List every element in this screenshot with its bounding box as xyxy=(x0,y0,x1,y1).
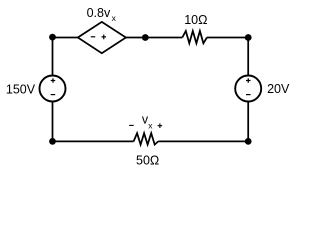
wire: left vertical upper xyxy=(52,38,54,77)
wire: left vertical lower xyxy=(52,101,54,142)
node dot bottom-left xyxy=(49,138,56,145)
label 0.8vx xyxy=(87,6,117,23)
svg-text:50Ω: 50Ω xyxy=(136,154,159,168)
node dot top-right xyxy=(245,34,252,41)
voltage source V2 20V (circle) xyxy=(235,76,261,102)
svg-text:10Ω: 10Ω xyxy=(184,13,207,27)
wire: right vertical upper xyxy=(247,38,249,77)
svg-text:x: x xyxy=(148,121,153,131)
wire: middle node to resistor R1 xyxy=(145,37,182,39)
resistor R1 10ohm zigzag xyxy=(182,31,207,43)
resistor R2 50ohm zigzag xyxy=(134,133,159,144)
svg-text:20V: 20V xyxy=(267,82,290,96)
voltage source V1 150V (circle) xyxy=(40,76,66,102)
wire: top-left horizontal segment xyxy=(53,37,78,39)
wire: resistor R1 to top-right corner xyxy=(207,37,248,39)
node dot bottom-right xyxy=(245,138,252,145)
node dot top-left xyxy=(49,34,56,41)
wire: bottom-right horizontal segment xyxy=(158,140,248,142)
dependent source E1 0.8vx (diamond) xyxy=(78,22,126,53)
wire: right vertical lower xyxy=(247,101,249,142)
svg-text:150V: 150V xyxy=(6,83,36,97)
wire: bottom-left horizontal segment xyxy=(53,140,134,142)
svg-text:x: x xyxy=(112,13,117,23)
svg-text:0.8v: 0.8v xyxy=(87,6,111,20)
node dot top-middle xyxy=(142,34,149,41)
wire: diamond right tip to middle node xyxy=(126,37,145,39)
label vx with polarity marks xyxy=(129,113,162,131)
